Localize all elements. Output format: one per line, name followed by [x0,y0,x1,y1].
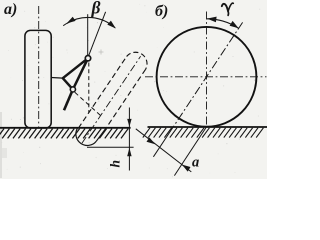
disc lower cap (solid arc) [76,128,96,145]
scan smudge left edge [0,112,2,178]
beta arc [67,17,116,27]
beta arrow right [107,21,116,29]
gamma arrow right [230,21,239,28]
vertical centerline [206,12,208,128]
pivot circle top [85,56,90,61]
shank (thick) [64,89,73,110]
vertical reference line [87,14,89,55]
ground hatch (fig a) [0,129,128,139]
contact parallel line L2 (solid) [174,127,206,176]
svg-text:h: h [108,160,123,168]
a arrow upper (tip on L1) [147,137,156,144]
disc band edge E2 (dashed above ground) [106,69,146,128]
inclined diameter L1 (dash-dot) [173,22,242,127]
dashed vertical from top pivot [88,63,90,114]
disc band edge E2 below ground (solid) [96,128,106,141]
a arrow lower (tip on L2) [182,165,191,172]
gamma arrow left [207,17,217,23]
h bottom level line [87,146,134,148]
horizontal centerline [145,76,267,78]
label gamma [222,3,234,15]
faint scan mark [99,50,104,55]
a dimension line [136,129,192,172]
h arrow down (tip at ground) [127,119,131,127]
tilted reference line [89,12,106,56]
h dimension vertical line [128,108,130,171]
L1 extension below ground (solid) [153,127,173,157]
wheel centerline [38,6,40,127]
wheel (rounded rect) [25,30,51,128]
beta arrow left [67,17,76,24]
bracket triangle (thick) [63,58,88,89]
pivot circle bottom [70,87,75,92]
disc band axis (dash-dot) [82,56,141,143]
gamma arc [207,19,239,29]
svg-text:а: а [192,155,199,171]
disc circle [157,27,257,127]
disc band edge E1 (dashed) [78,57,126,129]
svg-text:β: β [91,0,101,17]
h arrow up (tip at level line) [127,148,131,157]
ground line (fig a) [0,127,131,129]
disc upper cap (dashed arc) [127,52,147,69]
ground line (fig b) [148,126,268,128]
dashed axle line from bottom pivot [75,92,101,115]
link line wheel to bracket [51,77,63,80]
svg-text:а): а) [4,1,17,18]
ground hatch (fig b) [143,128,264,138]
svg-text:б): б) [155,3,168,20]
